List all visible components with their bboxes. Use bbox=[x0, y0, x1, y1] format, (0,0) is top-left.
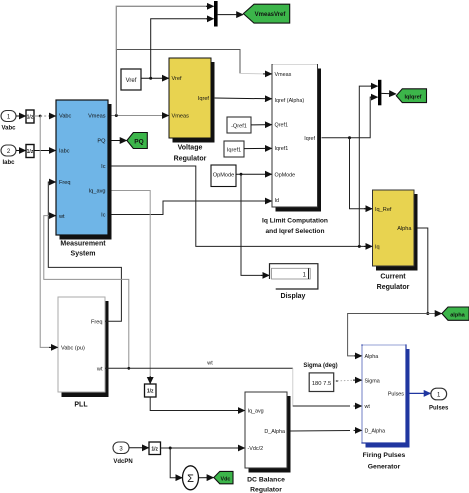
wire port3 to unit delay Z3 bbox=[129, 447, 149, 449]
wire Iqref1 to Iq Limit Iqref1 bbox=[244, 147, 272, 149]
svg-text:Iq: Iq bbox=[375, 245, 380, 251]
svg-text:Vabc: Vabc bbox=[1, 126, 16, 132]
wire wt branch to Measurement wt bbox=[44, 216, 130, 370]
wire DC Balance D_Alpha to Firing Pulses D_Alpha bbox=[291, 429, 362, 432]
unit delay 1/z Z2 bbox=[26, 145, 34, 158]
output port 1 Pulses bbox=[429, 388, 449, 411]
wire unit delay Z2 to Measurement Iabc bbox=[34, 150, 56, 152]
svg-text:wt: wt bbox=[96, 367, 103, 373]
svg-text:Iq_avg: Iq_avg bbox=[89, 189, 106, 195]
svg-text:Display: Display bbox=[281, 293, 306, 300]
wire unit delay Z1 to Measurement Vabc bbox=[34, 115, 56, 118]
wire Alpha branch to Firing Pulses Alpha bbox=[348, 314, 428, 356]
svg-text:PQ: PQ bbox=[97, 139, 106, 145]
wire -Qref1 to Iq Limit Qref1 bbox=[251, 124, 272, 126]
wire Vmeas branch up to mux M1 bbox=[116, 6, 271, 115]
goto tag VmeasVref bbox=[243, 4, 289, 23]
svg-text:Iqref (Alpha): Iqref (Alpha) bbox=[275, 98, 305, 104]
input port 1 Vabc bbox=[1, 111, 16, 132]
svg-text:Iqref: Iqref bbox=[304, 136, 315, 142]
svg-text:1/z: 1/z bbox=[151, 447, 158, 453]
constant Sigma (deg) bbox=[303, 363, 337, 392]
svg-text:Iqref: Iqref bbox=[198, 96, 210, 102]
mux M1 bbox=[214, 1, 218, 27]
svg-text:alpha: alpha bbox=[450, 312, 465, 318]
svg-text:180 7.5: 180 7.5 bbox=[312, 381, 331, 387]
svg-text:IqIqref: IqIqref bbox=[404, 94, 421, 100]
wire Measurement PQ to goto PQ bbox=[112, 140, 127, 142]
svg-text:VmeasVref: VmeasVref bbox=[255, 12, 287, 18]
wire mux M2 to goto IqIqref bbox=[381, 92, 395, 95]
unit delay 1/z Z4 bbox=[145, 384, 157, 397]
svg-text:PQ: PQ bbox=[134, 138, 143, 145]
svg-text:Pulses: Pulses bbox=[388, 392, 404, 398]
block Voltage Regulator U2 bbox=[169, 58, 215, 162]
svg-text:Vdc: Vdc bbox=[221, 476, 231, 482]
wire Firing Pulses Pulses output bbox=[410, 392, 431, 394]
svg-text:Alpha: Alpha bbox=[397, 226, 412, 232]
display block Display bbox=[270, 264, 318, 300]
wire port1 to unit delay bbox=[16, 115, 26, 117]
svg-text:Freq: Freq bbox=[59, 180, 71, 186]
constant -Qref1 bbox=[227, 117, 251, 133]
svg-text:Iqref1: Iqref1 bbox=[275, 146, 289, 152]
wire Current Regulator Alpha output bbox=[418, 228, 430, 315]
svg-text:Iq Limit Computation: Iq Limit Computation bbox=[262, 218, 328, 225]
svg-text:-Qref1: -Qref1 bbox=[231, 124, 247, 130]
wire mux M1 to goto VmeasVref bbox=[218, 14, 243, 16]
goto tag alpha bbox=[442, 307, 469, 320]
wire Measurement Iq_avg to unit delay Z4 bbox=[112, 191, 151, 384]
svg-text:Vref: Vref bbox=[126, 78, 137, 84]
wire wt to Firing Pulses wt bbox=[293, 368, 362, 406]
svg-text:System: System bbox=[71, 251, 96, 258]
svg-text:wt: wt bbox=[206, 361, 213, 367]
svg-text:Id: Id bbox=[275, 198, 280, 204]
constant Iqref1 bbox=[224, 141, 244, 157]
wire Sigma to Firing Pulses Sigma bbox=[334, 380, 362, 382]
wire unit delay Z3 to DC Balance -Vdc/2 bbox=[161, 447, 245, 450]
svg-text:Voltage: Voltage bbox=[178, 145, 203, 152]
svg-text:OpMode: OpMode bbox=[213, 173, 234, 179]
svg-text:-Vdc/2: -Vdc/2 bbox=[248, 446, 264, 452]
svg-text:1/z: 1/z bbox=[27, 149, 34, 155]
wire Measurement Ic3 to Iq wire bbox=[112, 166, 373, 248]
svg-text:Alpha: Alpha bbox=[365, 354, 379, 360]
wire Alpha to goto alpha bbox=[428, 313, 442, 315]
svg-text:Firing Pulses: Firing Pulses bbox=[363, 452, 406, 459]
svg-text:Sigma: Sigma bbox=[365, 378, 380, 384]
svg-text:Regulator: Regulator bbox=[377, 284, 410, 291]
svg-text:Vabc (pu): Vabc (pu) bbox=[61, 346, 85, 352]
sum S1 bbox=[183, 466, 199, 490]
block PLL U5 bbox=[58, 297, 109, 409]
svg-text:Σ: Σ bbox=[187, 473, 194, 485]
wire Iqref branch to Current Regulator Iq_Ref bbox=[350, 138, 373, 209]
svg-text:Current: Current bbox=[380, 274, 406, 281]
svg-text:Ic: Ic bbox=[101, 213, 106, 219]
wire OpMode branch to Display bbox=[241, 174, 269, 275]
block Firing Pulses Generator U7 bbox=[362, 345, 410, 471]
block Current Regulator U4 bbox=[373, 190, 418, 291]
svg-text:D_Alpha: D_Alpha bbox=[264, 429, 285, 435]
wire Vabc branch to PLL input bbox=[40, 116, 57, 347]
svg-text:Vmeas: Vmeas bbox=[172, 114, 190, 120]
wire Iq Limit Iqref output bbox=[322, 97, 378, 139]
svg-text:D_Alpha: D_Alpha bbox=[365, 429, 386, 435]
input port 3 VdcPN bbox=[113, 442, 133, 465]
wire Measurement Vmeas output bbox=[112, 114, 169, 117]
svg-text:Iq_Ref: Iq_Ref bbox=[375, 207, 392, 213]
svg-text:Pulses: Pulses bbox=[429, 406, 449, 412]
svg-text:wt: wt bbox=[58, 214, 65, 220]
svg-text:1/z: 1/z bbox=[147, 389, 154, 395]
wire Vdc branch to sum S1 bbox=[170, 448, 182, 478]
unit delay 1/z Z1 bbox=[26, 110, 34, 123]
svg-text:Regulator: Regulator bbox=[250, 487, 282, 493]
block Iq Limit Computation and Iqref Selection U3 bbox=[262, 65, 328, 236]
svg-text:and Iqref Selection: and Iqref Selection bbox=[266, 228, 325, 235]
wire PLL Freq to Measurement Freq bbox=[48, 182, 121, 321]
svg-text:Vmeas: Vmeas bbox=[88, 114, 106, 120]
svg-text:Iq_avg: Iq_avg bbox=[248, 409, 264, 415]
goto tag Vdc bbox=[214, 471, 233, 483]
svg-text:Iabc: Iabc bbox=[59, 149, 70, 155]
wire OpMode to Iq Limit OpMode bbox=[236, 173, 272, 176]
goto tag PQ bbox=[127, 133, 147, 149]
svg-text:Vabc: Vabc bbox=[59, 114, 72, 120]
wire Iq branch up to mux M2 bbox=[359, 86, 377, 246]
svg-text:Sigma (deg): Sigma (deg) bbox=[303, 363, 337, 369]
svg-text:Freq: Freq bbox=[91, 320, 103, 326]
wire port2 to unit delay bbox=[16, 150, 26, 152]
wire sum S1 to goto Vdc bbox=[199, 477, 214, 479]
constant Vref bbox=[121, 69, 141, 90]
input port 2 Iabc bbox=[1, 145, 16, 166]
svg-text:Measurement: Measurement bbox=[60, 241, 106, 248]
wire Vref to Voltage Regulator and mux M1 bbox=[141, 19, 214, 80]
svg-text:Vmeas: Vmeas bbox=[275, 72, 292, 78]
block Measurement System U1 bbox=[56, 100, 112, 258]
wire PLL wt output bbox=[105, 361, 293, 369]
svg-text:Iabc: Iabc bbox=[2, 160, 15, 166]
svg-text:1/z: 1/z bbox=[27, 114, 34, 120]
constant OpMode bbox=[211, 165, 236, 187]
svg-text:wt: wt bbox=[364, 404, 371, 410]
goto tag IqIqref bbox=[396, 89, 426, 103]
svg-text:DC Balance: DC Balance bbox=[247, 477, 285, 484]
svg-text:Iqref1: Iqref1 bbox=[227, 148, 241, 154]
svg-text:Vref: Vref bbox=[172, 76, 182, 82]
svg-text:Generator: Generator bbox=[368, 464, 401, 471]
svg-text:Ic: Ic bbox=[101, 164, 106, 170]
wire Voltage Regulator Iqref to Iq Limit bbox=[215, 97, 272, 100]
svg-text:Regulator: Regulator bbox=[174, 155, 207, 162]
block DC Balance Regulator U6 bbox=[245, 392, 291, 493]
wire unit delay Z4 to DC Balance Iq_avg bbox=[150, 397, 244, 411]
svg-text:VdcPN: VdcPN bbox=[113, 459, 132, 465]
svg-text:PLL: PLL bbox=[74, 402, 88, 409]
svg-text:OpMode: OpMode bbox=[275, 172, 296, 178]
mux M2 bbox=[378, 80, 381, 106]
svg-text:Qref1: Qref1 bbox=[275, 123, 288, 129]
wire Measurement Ic5 to Iq Limit Id bbox=[112, 201, 272, 215]
unit delay 1/z Z3 bbox=[149, 442, 161, 455]
